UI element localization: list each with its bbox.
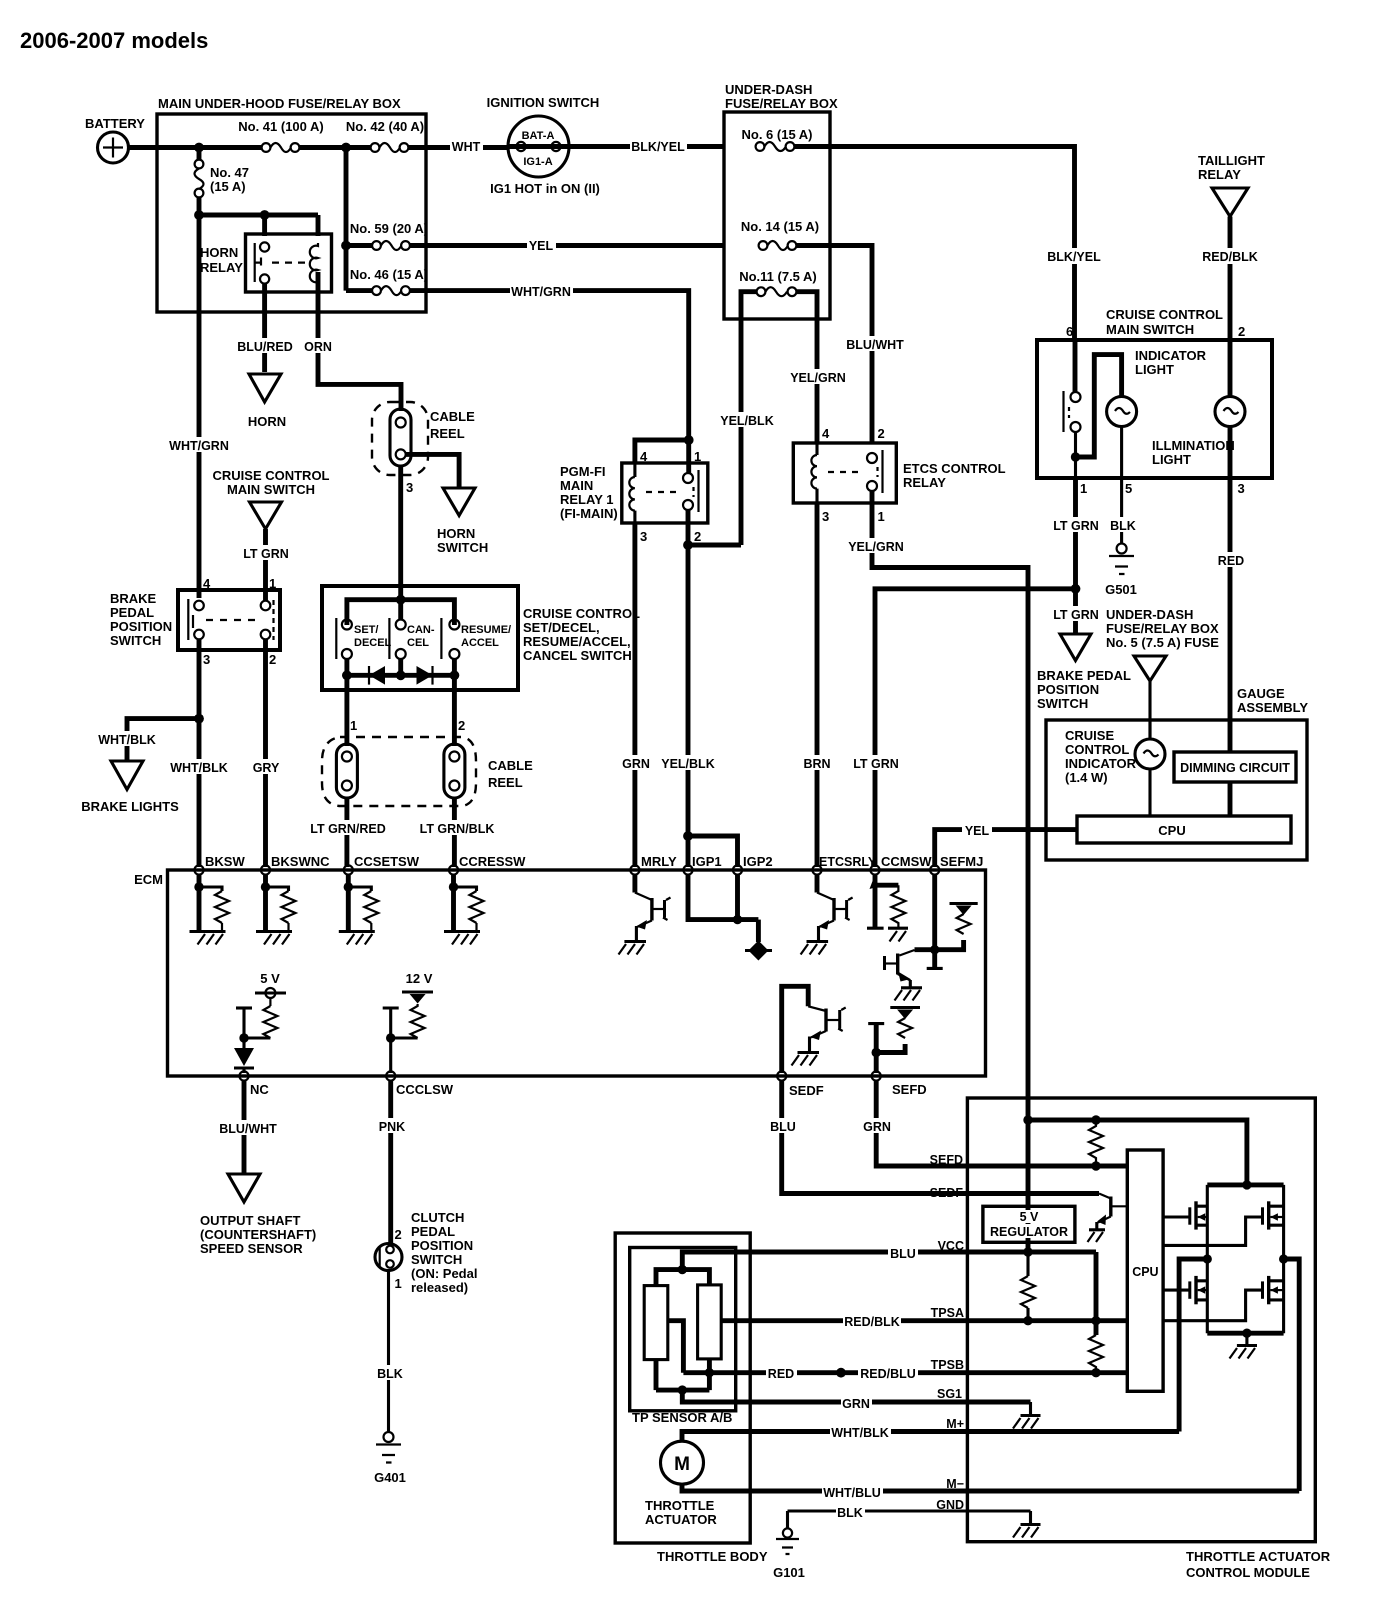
ignition switch	[487, 95, 600, 196]
wire YEL/BLK pin2 down	[686, 510, 691, 867]
svg-text:ILLMINATION: ILLMINATION	[1152, 438, 1235, 453]
svg-text:CABLE: CABLE	[488, 758, 533, 773]
label BLU/WHT vertical	[845, 336, 905, 352]
set/decel switch	[336, 618, 391, 659]
label WHT/GRN	[510, 283, 573, 299]
wire sensor A wiper to TPSB row	[668, 1321, 684, 1373]
label LT GRN (CCMSW leg)	[852, 755, 899, 771]
under-dash fuse/relay box	[724, 82, 838, 319]
svg-text:M−: M−	[946, 1477, 964, 1491]
wire BLU/WHT fuse14 to ETCS relay pin2	[797, 246, 873, 444]
wire WHT/BLK M+ row	[682, 1432, 1179, 1442]
fuse No. 6 (15 A)	[741, 127, 812, 151]
svg-text:INDICATOR: INDICATOR	[1065, 756, 1137, 771]
svg-text:BLU/WHT: BLU/WHT	[219, 1122, 277, 1136]
svg-text:UNDER-DASH: UNDER-DASH	[725, 82, 812, 97]
cruise control main switch box	[1037, 307, 1272, 496]
12 V supply	[383, 971, 433, 1073]
wire resume/accel to cable reel pin2	[452, 675, 457, 746]
svg-text:(COUNTERSHAFT): (COUNTERSHAFT)	[200, 1227, 316, 1242]
wire VCC top bus	[656, 1270, 709, 1286]
label YEL/BLK	[661, 755, 716, 771]
svg-text:GRN: GRN	[842, 1397, 870, 1411]
wire SG1 bottom bus	[656, 1388, 709, 1393]
wire pin2 GRY down to BKSWNC	[263, 640, 268, 868]
fuse No. 14 (15 A)	[741, 219, 819, 250]
PGM-FI main relay 1 (FI-MAIN)	[560, 449, 708, 544]
wire WHT/GRN fuse46 to PGM-FI relay drop	[410, 291, 689, 437]
diode bus	[347, 659, 455, 676]
cable reel top (steering connector)	[372, 402, 475, 475]
svg-text:CCSETSW: CCSETSW	[354, 854, 420, 869]
label BLK	[836, 1504, 865, 1520]
diode D2 (cathode right)	[417, 666, 433, 685]
potentiometer sensor A	[644, 1286, 668, 1360]
svg-text:WHT/BLK: WHT/BLK	[170, 761, 228, 775]
svg-text:CEL: CEL	[407, 637, 429, 649]
svg-text:IGP1: IGP1	[692, 854, 722, 869]
gauge CPU box	[1077, 816, 1291, 843]
node feed junction	[1023, 1115, 1032, 1124]
svg-text:SEDF: SEDF	[930, 1186, 964, 1200]
taillight relay	[1198, 153, 1265, 217]
svg-text:No. 14 (15 A): No. 14 (15 A)	[741, 219, 819, 234]
node VCC junction	[1023, 1247, 1032, 1256]
wire sensor A bottom lead	[654, 1360, 659, 1391]
under-dash No.5 fuse arrow	[1134, 656, 1166, 681]
wire YEL from SEFMJ to gauge CPU	[935, 830, 1077, 867]
label BLK pin5	[1108, 517, 1136, 533]
svg-text:BRAKE: BRAKE	[110, 591, 157, 606]
TP sensor A/B box	[630, 1248, 736, 1426]
node TPSA junction A	[1023, 1316, 1032, 1325]
svg-text:3: 3	[203, 652, 210, 667]
node diode bus junctions	[342, 670, 352, 680]
svg-text:No. 42 (40 A): No. 42 (40 A)	[346, 119, 424, 134]
svg-text:No. 5 (7.5 A) FUSE: No. 5 (7.5 A) FUSE	[1106, 635, 1219, 650]
svg-text:TPSB: TPSB	[931, 1358, 964, 1372]
transistor Q-ETCSRLY	[801, 874, 853, 955]
svg-text:RELAY: RELAY	[200, 260, 243, 275]
svg-text:BKSW: BKSW	[205, 854, 245, 869]
svg-text:SG1: SG1	[937, 1387, 962, 1401]
wire BLK GND row	[788, 1509, 1031, 1512]
svg-text:6: 6	[1066, 324, 1073, 339]
svg-text:CABLE: CABLE	[430, 409, 475, 424]
indicator light lamp	[1107, 348, 1207, 427]
svg-text:WHT/BLK: WHT/BLK	[98, 733, 156, 747]
svg-text:LIGHT: LIGHT	[1152, 452, 1191, 467]
wire LT GRN branch to CCMSW	[875, 589, 1076, 867]
transistor Q-SEDF (TACM)	[1088, 1194, 1128, 1243]
wire BRN pin3 to ETCSRLY	[815, 503, 820, 867]
svg-text:1: 1	[269, 576, 276, 591]
svg-text:OUTPUT SHAFT: OUTPUT SHAFT	[200, 1213, 300, 1228]
node junction at x346	[341, 143, 351, 153]
wire feed bus to H-bridge	[1028, 1120, 1247, 1185]
svg-text:BLU/WHT: BLU/WHT	[846, 338, 904, 352]
svg-text:POSITION: POSITION	[1037, 682, 1099, 697]
resistor TPSB pull (chain B)	[1089, 1335, 1103, 1373]
5V regulator U2	[983, 1206, 1075, 1242]
node brake lights branch junction	[194, 714, 204, 724]
diode to NC	[234, 1048, 254, 1073]
output shaft speed sensor arrow	[200, 1174, 316, 1256]
H-bridge top bus	[1207, 1182, 1283, 1187]
label YEL/BLK (fuse11 leg)	[719, 412, 774, 428]
svg-text:BRAKE LIGHTS: BRAKE LIGHTS	[81, 799, 179, 814]
horn arrow	[248, 374, 286, 429]
svg-text:3: 3	[406, 480, 413, 495]
svg-text:CPU: CPU	[1132, 1265, 1158, 1279]
node TPSA junction B	[1091, 1316, 1100, 1325]
svg-text:BAT-A: BAT-A	[522, 130, 555, 142]
svg-text:MAIN SWITCH: MAIN SWITCH	[1106, 322, 1194, 337]
wire horn relay coil lower pin ORN	[318, 272, 401, 411]
transistor Q-CCMSW (internal, mirrored)	[883, 950, 922, 1001]
fuse No. 41 (100 A)	[238, 119, 324, 152]
battery	[85, 116, 145, 163]
svg-text:CRUISE: CRUISE	[1065, 728, 1114, 743]
svg-text:BRAKE PEDAL: BRAKE PEDAL	[1037, 668, 1131, 683]
node SEFD row junction	[1091, 1161, 1100, 1170]
svg-text:3: 3	[640, 529, 647, 544]
svg-text:REEL: REEL	[488, 775, 523, 790]
wire RED/BLK taillight relay to main switch pin2	[1228, 217, 1233, 339]
wire YEL/BLK fuse11 left leg down	[741, 292, 757, 545]
svg-text:CONTROL MODULE: CONTROL MODULE	[1186, 1565, 1310, 1580]
svg-text:LT GRN: LT GRN	[1053, 608, 1099, 622]
svg-text:CRUISE CONTROL: CRUISE CONTROL	[213, 468, 330, 483]
wire No.5 fuse to gauge indicator	[1148, 681, 1151, 739]
label WHT	[450, 138, 483, 154]
MOSFET Q3 (lower left)	[1163, 1259, 1207, 1333]
svg-text:No. 41 (100 A): No. 41 (100 A)	[238, 119, 324, 134]
svg-text:GAUGE: GAUGE	[1237, 686, 1285, 701]
ETCS control relay	[793, 426, 1005, 524]
wire sensor B wiper TPSA row	[721, 1318, 1127, 1323]
wire sensor B bottom lead	[707, 1359, 712, 1390]
svg-text:TAILLIGHT: TAILLIGHT	[1198, 153, 1265, 168]
svg-text:1: 1	[878, 509, 885, 524]
wire switch to indicator light over-route	[1076, 355, 1122, 457]
ground H-bridge	[1230, 1333, 1258, 1358]
svg-text:INDICATOR: INDICATOR	[1135, 348, 1207, 363]
svg-text:2: 2	[269, 652, 276, 667]
svg-text:PEDAL: PEDAL	[411, 1224, 455, 1239]
svg-text:No. 46 (15 A): No. 46 (15 A)	[350, 267, 428, 282]
svg-text:THROTTLE BODY: THROTTLE BODY	[657, 1549, 768, 1564]
wire GRN SEFD to TACM	[876, 1081, 1127, 1166]
joint connector (filled diamond)	[745, 941, 772, 961]
wire VCC drop (chain B)	[1094, 1252, 1099, 1335]
svg-text:SWITCH: SWITCH	[1037, 696, 1088, 711]
cruise control set/decel resume/accel cancel switch box	[322, 586, 640, 690]
svg-text:2006-2007 models: 2006-2007 models	[20, 28, 208, 53]
svg-text:1: 1	[694, 449, 701, 464]
wire junction to PGM-FI coil pin4	[635, 440, 689, 463]
label BRN	[802, 755, 832, 771]
cable reel bottom (dashed)	[322, 718, 533, 806]
label GRN	[841, 1395, 872, 1411]
svg-text:LT GRN: LT GRN	[243, 547, 289, 561]
svg-text:DIMMING CIRCUIT: DIMMING CIRCUIT	[1180, 761, 1290, 775]
wire YEL fuse59 to fuse14	[410, 243, 724, 248]
svg-text:1: 1	[1080, 481, 1087, 496]
ECM terminals (top row)	[194, 865, 939, 874]
label RED	[766, 1365, 797, 1381]
svg-text:2: 2	[458, 718, 465, 733]
svg-text:PNK: PNK	[379, 1120, 405, 1134]
label YEL/GRN lower	[848, 538, 905, 554]
wire cable reel to horn switch	[405, 454, 459, 487]
svg-text:BLK/YEL: BLK/YEL	[1047, 250, 1101, 264]
svg-text:PGM-FI: PGM-FI	[560, 464, 606, 479]
wire BLU/WHT NC to speed sensor	[242, 1081, 247, 1173]
svg-text:REGULATOR: REGULATOR	[990, 1225, 1068, 1239]
label YEL	[527, 237, 556, 253]
brake pedal position switch arrow (right)	[1060, 634, 1091, 661]
wire GRN pin3 to MRLY	[632, 523, 637, 867]
label WHT/BLK	[830, 1424, 891, 1440]
svg-text:No. 6 (15 A): No. 6 (15 A)	[741, 127, 812, 142]
label RED pin3	[1216, 552, 1246, 568]
wire pin3 WHT/BLK down to BKSW	[197, 640, 202, 868]
svg-text:RELAY: RELAY	[1198, 167, 1241, 182]
svg-text:HORN: HORN	[200, 245, 238, 260]
svg-text:SEDF: SEDF	[789, 1083, 824, 1098]
svg-text:GRN: GRN	[863, 1120, 891, 1134]
MOSFET Q4 (lower right)	[1163, 1259, 1284, 1333]
svg-text:SET/DECEL,: SET/DECEL,	[523, 620, 600, 635]
svg-text:12 V: 12 V	[406, 971, 433, 986]
potentiometer sensor B	[698, 1285, 722, 1359]
svg-text:RED: RED	[1218, 554, 1244, 568]
svg-text:5 V: 5 V	[1020, 1210, 1039, 1224]
svg-text:HORN: HORN	[248, 414, 286, 429]
wire BLU SEDF to TACM	[782, 1081, 1099, 1194]
cancel switch	[389, 600, 434, 659]
svg-text:WHT: WHT	[452, 140, 481, 154]
label WHT/GRN vertical	[168, 437, 230, 453]
svg-text:released): released)	[411, 1280, 468, 1295]
svg-text:BLK: BLK	[837, 1506, 863, 1520]
svg-text:ORN: ORN	[304, 340, 332, 354]
svg-text:No.11 (7.5 A): No.11 (7.5 A)	[739, 269, 817, 284]
resume/accel switch	[441, 618, 511, 659]
wire horn relay contact lower pin BLU/RED	[262, 284, 267, 373]
svg-text:G401: G401	[374, 1470, 406, 1485]
label LT GRN/BLK	[419, 820, 495, 836]
svg-text:TP SENSOR A/B: TP SENSOR A/B	[632, 1410, 732, 1425]
svg-text:MAIN: MAIN	[560, 478, 593, 493]
label WHT/BLU	[822, 1484, 883, 1500]
svg-text:BLK/YEL: BLK/YEL	[631, 140, 685, 154]
wire junction to horn relay top	[199, 215, 318, 236]
svg-text:FUSE/RELAY BOX: FUSE/RELAY BOX	[725, 96, 838, 111]
wire M- link	[1284, 1259, 1300, 1491]
label BLK	[376, 1365, 404, 1381]
illumination light lamp	[1152, 340, 1245, 467]
svg-text:CCCLSW: CCCLSW	[396, 1082, 454, 1097]
node RED to RED/BLU splice	[836, 1368, 846, 1378]
svg-text:5: 5	[1125, 481, 1132, 496]
svg-text:ACTUATOR: ACTUATOR	[645, 1512, 717, 1527]
node pull-up tap	[1091, 1115, 1100, 1124]
wire pin5 BLK to G501	[1120, 478, 1123, 543]
label LT GRN/RED	[310, 820, 386, 836]
svg-text:G501: G501	[1105, 582, 1137, 597]
wire WHT/BLK branch to brake lights	[127, 719, 199, 760]
svg-text:MAIN UNDER-HOOD FUSE/RELAY BOX: MAIN UNDER-HOOD FUSE/RELAY BOX	[158, 96, 401, 111]
svg-text:WHT/BLU: WHT/BLU	[823, 1486, 881, 1500]
pulldown resistor BKSWNC	[256, 874, 296, 945]
svg-text:3: 3	[822, 509, 829, 524]
svg-text:POSITION: POSITION	[110, 619, 172, 634]
clutch pedal position switch	[375, 1210, 477, 1295]
svg-text:CCRESSW: CCRESSW	[459, 854, 526, 869]
label BLU/RED	[236, 338, 294, 354]
wire YEL/GRN fuse11 right leg down to ETCS coil pin4	[797, 292, 818, 443]
pulldown resistor BKSW	[190, 874, 230, 945]
wire PNK CCCLSW to clutch switch	[388, 1081, 393, 1244]
fuse No. 46 (15 A)	[346, 267, 428, 295]
svg-text:SWITCH: SWITCH	[411, 1252, 462, 1267]
svg-text:CONTROL: CONTROL	[1065, 742, 1129, 757]
svg-text:2: 2	[694, 529, 701, 544]
cable reel connector 2	[444, 744, 465, 798]
svg-text:No. 47: No. 47	[210, 165, 249, 180]
svg-text:M: M	[674, 1454, 690, 1475]
ECM box	[134, 870, 985, 1076]
svg-text:BATTERY: BATTERY	[85, 116, 145, 131]
node junction pin2/fuse11	[683, 540, 693, 550]
svg-text:BLK: BLK	[377, 1367, 403, 1381]
pulldown resistor CCSETSW	[339, 874, 379, 945]
svg-text:GND: GND	[936, 1498, 964, 1512]
label YEL/GRN (coil leg)	[790, 369, 847, 385]
transistor Q-SEDF	[782, 986, 846, 1073]
svg-text:CAN-: CAN-	[407, 624, 435, 636]
svg-text:ETCSRLY: ETCSRLY	[819, 855, 877, 869]
svg-text:LT GRN: LT GRN	[853, 757, 899, 771]
wire LT GRN/BLK to CCRESSW	[452, 798, 457, 867]
svg-text:2: 2	[1238, 324, 1245, 339]
label BLK/YEL vertical	[1046, 248, 1103, 264]
ground GND	[1013, 1511, 1041, 1538]
label YEL	[962, 822, 992, 838]
svg-text:CPU: CPU	[1158, 823, 1185, 838]
brake lights arrow	[81, 761, 179, 814]
svg-text:YEL/GRN: YEL/GRN	[848, 540, 904, 554]
node switch output junction	[1071, 452, 1080, 461]
wire switch feed bus	[347, 600, 455, 625]
svg-text:IG1 HOT in ON (II): IG1 HOT in ON (II)	[490, 181, 600, 196]
svg-text:(ON: Pedal: (ON: Pedal	[411, 1266, 477, 1281]
svg-text:SET/: SET/	[354, 624, 378, 636]
wire LT GRN/RED to CCSETSW	[344, 798, 349, 867]
throttle body box	[615, 1233, 768, 1564]
svg-text:LT GRN/BLK: LT GRN/BLK	[420, 822, 495, 836]
svg-text:RELAY: RELAY	[903, 475, 946, 490]
wire BLK/YEL ignition to under-dash box	[569, 144, 724, 149]
svg-text:1: 1	[395, 1276, 402, 1291]
node PGM-FI feed junction	[684, 435, 694, 445]
node LT GRN junction to CCMSW branch	[1071, 584, 1081, 594]
svg-text:WHT/BLK: WHT/BLK	[831, 1426, 889, 1440]
label under-dash No.5 fuse	[1106, 607, 1219, 650]
ground G501	[1105, 544, 1137, 598]
svg-text:GRN: GRN	[622, 757, 650, 771]
svg-text:YEL/BLK: YEL/BLK	[661, 757, 714, 771]
svg-text:IG1-A: IG1-A	[523, 156, 552, 168]
svg-text:ASSEMBLY: ASSEMBLY	[1237, 700, 1308, 715]
ECM terminal labels	[205, 854, 983, 869]
svg-text:MAIN SWITCH: MAIN SWITCH	[227, 482, 315, 497]
MOSFET Q1 (upper left)	[1163, 1185, 1207, 1259]
svg-text:RED/BLK: RED/BLK	[1202, 250, 1258, 264]
svg-text:MRLY: MRLY	[641, 854, 677, 869]
node junction under fuse47	[194, 210, 204, 220]
svg-text:YEL: YEL	[529, 239, 554, 253]
horn relay HR	[200, 234, 332, 292]
diode D1 (cathode left)	[369, 666, 385, 685]
wire indicator light to pin5	[1120, 427, 1123, 479]
svg-text:BLU: BLU	[770, 1120, 796, 1134]
svg-text:REEL: REEL	[430, 426, 465, 441]
switch contacts (main switch)	[1064, 340, 1081, 478]
node battery bus junction	[194, 143, 204, 153]
svg-text:SEFMJ: SEFMJ	[940, 854, 983, 869]
label GRN	[621, 755, 651, 771]
svg-text:BLK: BLK	[1110, 519, 1136, 533]
ground SG1	[1013, 1402, 1041, 1429]
svg-text:CRUISE CONTROL: CRUISE CONTROL	[523, 606, 640, 621]
pulldown resistor CCRESSW	[444, 874, 484, 945]
svg-text:ECM: ECM	[134, 872, 163, 887]
fuse No. 59 (20 A)	[341, 148, 428, 291]
node left midpoint	[1203, 1254, 1212, 1263]
svg-text:2: 2	[395, 1227, 402, 1242]
svg-text:CLUTCH: CLUTCH	[411, 1210, 464, 1225]
svg-text:BKSWNC: BKSWNC	[271, 854, 330, 869]
wire M+ link	[1179, 1259, 1207, 1432]
cable reel connector 1	[336, 744, 357, 798]
5 V supply	[236, 971, 286, 1048]
svg-text:SEFD: SEFD	[930, 1153, 963, 1167]
svg-text:YEL/GRN: YEL/GRN	[790, 371, 846, 385]
label PNK	[375, 1118, 408, 1134]
svg-text:THROTTLE ACTUATOR: THROTTLE ACTUATOR	[1186, 1549, 1331, 1564]
svg-text:(FI-MAIN): (FI-MAIN)	[560, 506, 618, 521]
svg-text:G101: G101	[773, 1565, 805, 1580]
svg-text:HORN: HORN	[437, 526, 475, 541]
label BLU/WHT	[218, 1120, 278, 1136]
svg-text:TPSA: TPSA	[931, 1306, 964, 1320]
svg-text:M+: M+	[946, 1417, 964, 1431]
svg-text:IGNITION SWITCH: IGNITION SWITCH	[487, 95, 600, 110]
svg-text:(15 A): (15 A)	[210, 179, 246, 194]
wire YEL/GRN pin1 route	[872, 491, 1028, 1100]
node TPSB junction	[1091, 1368, 1100, 1377]
resistor SEFD pull-up	[1089, 1120, 1103, 1166]
wire junction into pin1	[686, 440, 691, 473]
svg-text:VCC: VCC	[938, 1239, 964, 1253]
node right midpoint	[1279, 1254, 1288, 1263]
resistor TPSA pull (chain A)	[1021, 1252, 1035, 1321]
svg-text:WHT/GRN: WHT/GRN	[169, 439, 229, 453]
svg-text:DECEL: DECEL	[354, 637, 392, 649]
